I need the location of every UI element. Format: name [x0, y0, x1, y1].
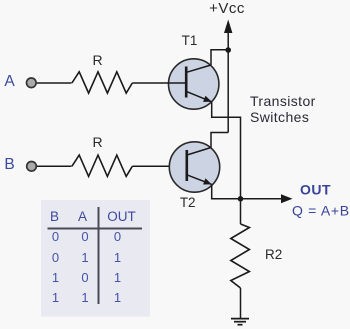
resistor R (input A) [72, 72, 132, 93]
svg-text:T1: T1 [182, 33, 198, 48]
transistor T2 base bar [186, 150, 189, 181]
node: T1 collector junction dot [225, 47, 231, 53]
wire Vcc vertical [227, 28, 229, 133]
wire B to resistor R [37, 165, 72, 167]
transistor T1 body [169, 59, 219, 109]
svg-text:0: 0 [52, 250, 59, 265]
svg-text:T2: T2 [180, 195, 196, 210]
svg-text:A: A [78, 209, 87, 224]
transistor T2 collector line [187, 148, 211, 156]
svg-text:B: B [4, 156, 14, 173]
truth table vertical rule [98, 207, 100, 304]
transistor T1 emitter line [186, 91, 212, 102]
svg-text:B: B [50, 209, 59, 224]
wire T2 emitter to OUT line [212, 184, 283, 198]
wire A to resistor R [37, 82, 72, 84]
svg-text:1: 1 [52, 290, 59, 305]
svg-text:0: 0 [81, 229, 88, 244]
terminal B [27, 162, 37, 172]
wire T1 collector to Vcc [211, 50, 228, 65]
wire resistor R to T1 base [132, 82, 186, 84]
wire R2 to ground [240, 288, 242, 319]
svg-text:+Vcc: +Vcc [209, 0, 245, 17]
truth table panel [41, 200, 150, 317]
wire Vcc step to T2 collector [211, 133, 228, 148]
wire T1 emitter to OUT rail [212, 102, 241, 199]
resistor R (input B) [72, 155, 132, 176]
svg-text:1: 1 [114, 290, 121, 305]
wire resistor R to T2 base [132, 165, 186, 167]
transistor T2 emitter line [187, 175, 212, 185]
svg-text:Switches: Switches [250, 109, 309, 125]
transistor T1 emitter arrow [203, 96, 212, 102]
svg-text:R: R [92, 134, 102, 150]
svg-text:Q = A+B: Q = A+B [292, 203, 350, 219]
transistor T2 emitter arrow [203, 178, 212, 184]
Vcc arrow [224, 20, 232, 34]
svg-text:1: 1 [114, 270, 121, 285]
truth table horizontal rule [48, 228, 143, 230]
svg-text:R: R [92, 52, 102, 68]
node OUT junction dot [238, 196, 244, 202]
svg-text:OUT: OUT [107, 209, 136, 224]
svg-text:Transistor: Transistor [250, 93, 316, 109]
svg-text:OUT: OUT [300, 182, 331, 198]
svg-text:A: A [4, 73, 15, 90]
svg-text:1: 1 [52, 270, 59, 285]
svg-text:1: 1 [114, 250, 121, 265]
wire OUT node to R2 [240, 199, 242, 224]
svg-text:0: 0 [114, 229, 121, 244]
terminal A [27, 78, 37, 88]
svg-text:R2: R2 [265, 247, 282, 262]
svg-text:1: 1 [81, 290, 88, 305]
resistor R2 [231, 224, 250, 288]
transistor T2 body [169, 142, 219, 192]
svg-text:0: 0 [81, 270, 88, 285]
transistor T1 base bar [185, 67, 188, 98]
transistor T1 collector line [187, 65, 212, 72]
ground [231, 318, 249, 320]
svg-text:0: 0 [52, 229, 59, 244]
OUT arrow [281, 194, 293, 203]
svg-text:1: 1 [81, 250, 88, 265]
